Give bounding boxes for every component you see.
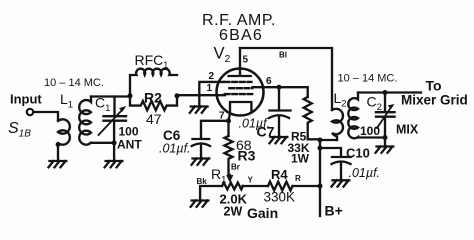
- node cathode junction: [226, 118, 231, 123]
- svg-text:100: 100: [360, 124, 380, 138]
- ground below L1 primary: [49, 161, 67, 167]
- svg-text:1: 1: [207, 83, 213, 94]
- svg-text:1W: 1W: [291, 152, 310, 166]
- node C2 top: [383, 90, 388, 95]
- capacitor C1: [104, 97, 127, 143]
- wire plate to top rail: [240, 48, 332, 110]
- wire C10 branch: [320, 148, 341, 157]
- resistor R2: [130, 96, 177, 110]
- svg-text:V2: V2: [214, 45, 231, 66]
- wire jog to pin 2: [199, 82, 224, 95]
- wire input to L1: [34, 112, 59, 120]
- wire L1 primary to ground: [57, 145, 59, 161]
- node L1 primary bottom: [56, 142, 61, 147]
- svg-text:47: 47: [146, 111, 162, 127]
- svg-text:R: R: [295, 174, 301, 183]
- arrow C1 variable: [99, 110, 123, 136]
- inductor L1 secondary: [79, 97, 91, 145]
- svg-text:Bl: Bl: [279, 51, 287, 60]
- resistor R4: [268, 182, 293, 191]
- B+ line: [319, 140, 321, 216]
- svg-text:L2: L2: [334, 90, 347, 110]
- inductor L2 primary: [332, 109, 343, 140]
- wire R2 to tube grid: [177, 94, 225, 96]
- svg-text:5: 5: [243, 55, 249, 66]
- ground on grid line: [190, 107, 208, 113]
- svg-text:MIX: MIX: [396, 123, 419, 137]
- svg-text:10 – 14 MC.: 10 – 14 MC.: [44, 77, 104, 89]
- tube envelope: [217, 69, 264, 116]
- cathode circuit: wire pin7 down: [229, 113, 231, 136]
- wire cathode to C6: [201, 121, 229, 139]
- svg-text:R2: R2: [144, 90, 162, 106]
- svg-text:6BA6: 6BA6: [219, 27, 263, 44]
- ground below C2: [376, 147, 394, 153]
- wiper arrow into R1: [229, 175, 231, 176]
- tube grid row 2: [229, 87, 252, 89]
- svg-text:RFC1: RFC1: [135, 52, 169, 70]
- svg-text:Y: Y: [248, 176, 254, 185]
- svg-text:2W: 2W: [224, 205, 243, 219]
- wire L2 secondary bottom: [358, 136, 385, 138]
- svg-text:10 – 14 MC.: 10 – 14 MC.: [338, 73, 398, 85]
- svg-text:ANT: ANT: [117, 138, 142, 152]
- svg-text:R3: R3: [238, 148, 256, 164]
- svg-text:Mixer Grid: Mixer Grid: [401, 93, 468, 108]
- svg-text:To: To: [426, 78, 442, 94]
- capacitor C7: [269, 87, 291, 136]
- svg-text:.01µf.: .01µf.: [159, 142, 191, 156]
- svg-text:Gain: Gain: [247, 205, 278, 221]
- ground below C10: [332, 180, 350, 186]
- ground below C7: [270, 137, 288, 143]
- arrow C2 variable: [377, 107, 392, 129]
- svg-text:6: 6: [266, 76, 272, 87]
- wire L1 secondary bottom: [91, 142, 114, 144]
- svg-text:Br: Br: [231, 163, 240, 172]
- inductor L2 secondary: [348, 93, 358, 139]
- node C1 bottom: [112, 140, 117, 145]
- svg-text:R4: R4: [271, 167, 288, 182]
- capacitor C10: [332, 157, 351, 180]
- svg-text:Bk: Bk: [197, 177, 208, 186]
- tube grid row 1: [225, 81, 252, 83]
- svg-text:C10: C10: [346, 146, 370, 161]
- svg-text:.01µf.: .01µf.: [349, 166, 381, 180]
- svg-text:2: 2: [209, 71, 215, 82]
- node C7 top: [277, 85, 282, 90]
- svg-text:S1B: S1B: [8, 120, 31, 140]
- input terminal: [27, 109, 33, 115]
- wire C2 to ground: [384, 138, 386, 147]
- potentiometer R1: [222, 183, 243, 190]
- node C2 bottom: [383, 135, 388, 140]
- wire pin 6 to R5: [253, 87, 308, 97]
- node R4 junction: [318, 184, 323, 189]
- node R2 right: [175, 93, 180, 98]
- ground below R1: [191, 201, 209, 207]
- svg-text:R1: R1: [211, 166, 226, 186]
- capacitor C6: [192, 139, 210, 158]
- choke RFC1: [130, 69, 177, 96]
- resistor R5: [304, 97, 320, 139]
- node R2 left: [128, 93, 133, 98]
- wire L2 secondary top: [358, 91, 421, 93]
- capacitor C2: [376, 93, 395, 138]
- tube plate: [229, 48, 251, 76]
- svg-text:Input: Input: [10, 92, 42, 107]
- wire R4 to B+ line: [293, 185, 321, 187]
- wire grid ground stub: [198, 95, 200, 106]
- wire C1 to ground: [113, 143, 115, 161]
- tube grid row 3: [225, 93, 253, 95]
- ground below C1: [105, 161, 123, 167]
- svg-text:100: 100: [119, 125, 139, 139]
- node C10 branch: [318, 146, 323, 151]
- wire L1 secondary top to grid line: [91, 95, 130, 97]
- node B+ top: [318, 138, 323, 143]
- svg-text:L1: L1: [60, 91, 73, 111]
- wire L2 primary bottom to B+: [320, 139, 337, 141]
- resistor R3: [225, 136, 233, 176]
- ground below C6: [192, 159, 210, 165]
- tube cathode: [230, 102, 251, 113]
- wire R1 left to ground: [200, 186, 222, 200]
- svg-text:C2: C2: [367, 94, 382, 114]
- svg-text:B+: B+: [325, 203, 343, 219]
- inductor L1 primary: [57, 119, 70, 144]
- svg-text:330K: 330K: [264, 190, 296, 205]
- wire R1 to R4: [243, 185, 269, 187]
